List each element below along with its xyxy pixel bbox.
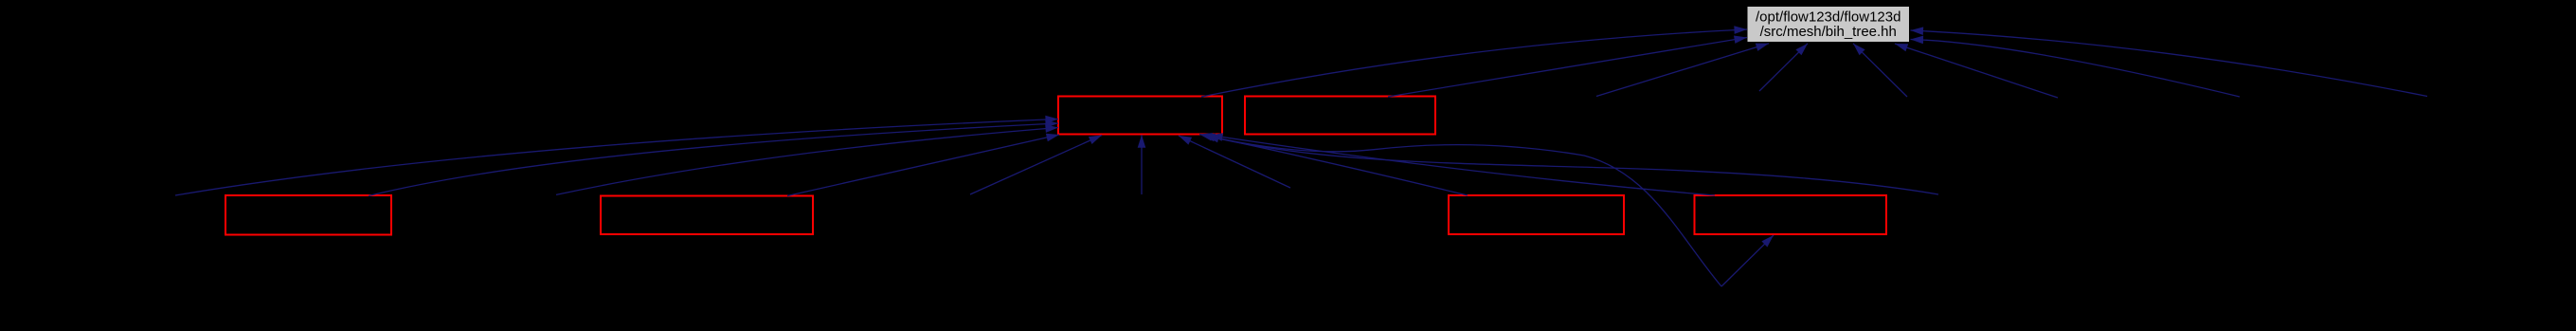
svg-text:/src/mesh/bih_tree.hh: /src/mesh/bih_tree.hh [1760,24,1897,40]
svg-text:/opt/flow123d/flow123d: /opt/flow123d/flow123d [1756,9,1900,26]
